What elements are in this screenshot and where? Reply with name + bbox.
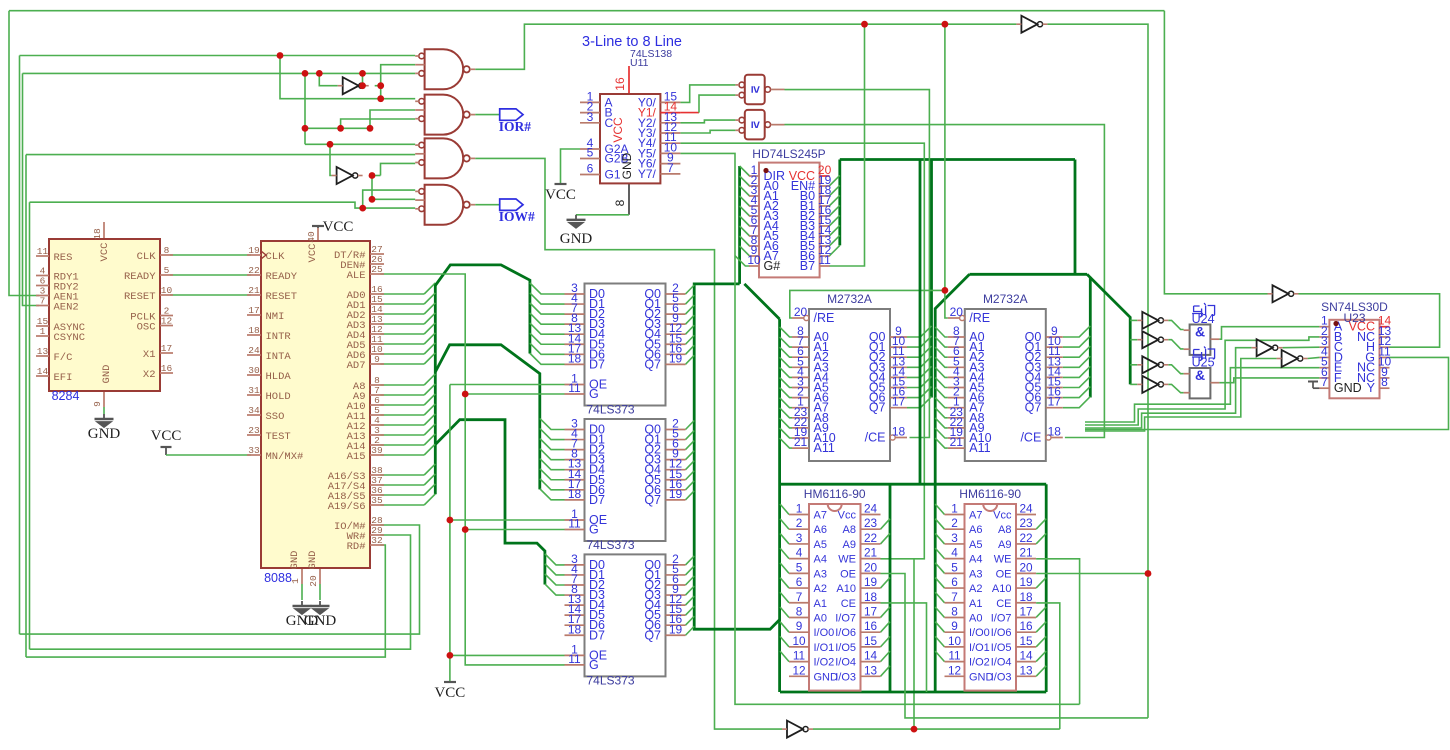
svg-text:Q7: Q7 xyxy=(644,493,661,507)
svg-text:I/O0: I/O0 xyxy=(969,627,990,639)
wire 6116-2 right fan 5 xyxy=(1036,578,1046,589)
pin 1 OE of 74LS373-3 xyxy=(565,654,585,656)
pin 10 NC of SN74LS30D xyxy=(1380,367,1390,369)
svg-text:8: 8 xyxy=(796,604,803,618)
svg-text:13: 13 xyxy=(864,663,878,677)
wire x305 down xyxy=(304,73,306,144)
wire latch Q fan y=469.7 xyxy=(686,461,695,470)
junction xyxy=(447,517,454,524)
AND gate U25 xyxy=(1190,368,1211,398)
svg-text:OE: OE xyxy=(996,568,1012,580)
wire 245 A fan y=186 xyxy=(740,176,750,186)
pin 5 A3 of HM6116-1 xyxy=(789,572,809,574)
pin 11 Q2 of M2732A-2 xyxy=(1046,356,1063,358)
svg-text:24: 24 xyxy=(864,502,878,516)
wire inv1 out to in3 line xyxy=(362,73,364,85)
wire mnmx xyxy=(166,454,251,456)
svg-text:U25: U25 xyxy=(1192,356,1215,370)
pin 3 A5 of M2732A-1 xyxy=(792,387,809,389)
wire Y5 net xyxy=(680,153,1079,704)
wire /RE net xyxy=(790,290,945,318)
pin 6 A2 of HM6116-1 xyxy=(789,587,809,589)
wire 2732-1 Q fan y=347.1 xyxy=(907,336,932,347)
IC M2732A-1 body xyxy=(809,309,890,461)
bus data top rail xyxy=(840,158,1075,161)
svg-text:RD#: RD# xyxy=(347,541,366,553)
pin 12 GND of HM6116-1 xyxy=(789,675,809,677)
pin 35 A19/S6 of 8088 xyxy=(370,504,384,506)
svg-text:GND: GND xyxy=(307,551,319,570)
wire g4-in3 net xyxy=(29,202,31,649)
svg-text:4: 4 xyxy=(796,546,803,560)
svg-text:5: 5 xyxy=(796,560,803,574)
svg-text:INTA: INTA xyxy=(266,351,292,363)
wire 6116-1 left fan 8 xyxy=(780,622,789,633)
wire latch2 D3 fan xyxy=(540,449,565,460)
wire latch1 D3 fan xyxy=(530,313,565,324)
wire AD/A pin fan y=344 xyxy=(380,343,424,345)
svg-text:10: 10 xyxy=(161,285,173,296)
wire 2732-1 A fan y=367.3 xyxy=(780,357,792,367)
wire 2732-2 A fan y=387.5 xyxy=(935,378,948,388)
wire 245 B fan y=256 xyxy=(829,245,840,256)
junction xyxy=(277,52,284,59)
pin 6 A2 of M2732A-2 xyxy=(948,356,965,358)
wire 2732-2 Q fan y=337 xyxy=(1063,326,1091,337)
wire 245 A fan y=216 xyxy=(740,206,750,216)
svg-text:GND: GND xyxy=(304,613,337,629)
wire latch2 OE xyxy=(450,519,565,521)
pin 5 E of SN74LS30D xyxy=(1319,367,1329,369)
wire OE net xyxy=(449,385,451,683)
pin 10 RESET of 8284 xyxy=(160,294,173,296)
junction xyxy=(447,652,454,659)
svg-text:GND: GND xyxy=(88,426,121,442)
wire AD/A pin fan y=334 xyxy=(380,333,424,335)
pin 13 Q3 of M2732A-2 xyxy=(1046,366,1063,368)
wire latch1 D1 fan xyxy=(530,293,565,304)
pin 14 Y1/ of 74LS138 xyxy=(660,112,680,114)
svg-text:G1: G1 xyxy=(605,168,621,182)
wire latch Q fan y=499.85 xyxy=(686,491,695,500)
pin 14 I/O4 of HM6116-2 xyxy=(1016,661,1036,663)
svg-text:VCC: VCC xyxy=(151,428,182,444)
pin 11 Y4/ of 74LS138 xyxy=(660,142,680,144)
svg-text:21: 21 xyxy=(794,435,808,449)
wire invTR out xyxy=(1047,24,1148,718)
svg-text:22: 22 xyxy=(864,531,877,545)
wire reset xyxy=(170,294,251,296)
svg-text:SSO: SSO xyxy=(266,411,285,423)
svg-text:22: 22 xyxy=(1019,531,1032,545)
8284 pin 9 GND xyxy=(103,391,105,407)
inverter xyxy=(1142,376,1158,393)
svg-text:I/O6: I/O6 xyxy=(991,627,1012,639)
junction xyxy=(369,172,376,179)
wire g1-in2 xyxy=(381,65,416,99)
pin 4 A2 of 74LS245 xyxy=(749,205,759,207)
wire latch Q fan y=615.15 xyxy=(686,606,695,615)
pin 16 Q6 of M2732A-2 xyxy=(1046,397,1063,399)
pin 16 Q6 of M2732A-1 xyxy=(890,397,907,399)
ground xyxy=(311,601,330,614)
svg-text:3: 3 xyxy=(587,110,594,124)
wire latch3 D1 fan xyxy=(545,564,565,575)
bus exit2 to latch2 xyxy=(435,345,540,490)
wire 245 A fan y=176 xyxy=(740,166,750,176)
svg-text:5: 5 xyxy=(587,146,594,160)
wire latch2 D5 fan xyxy=(540,469,565,480)
pin 9 AD7 of 8088 xyxy=(370,363,384,365)
pin 1 A7 of M2732A-2 xyxy=(948,407,965,409)
wire 2732-2 A fan y=427.9 xyxy=(935,418,948,428)
inverter xyxy=(1142,356,1158,373)
wire B net xyxy=(1085,337,1319,425)
svg-text:A11: A11 xyxy=(814,441,835,455)
pin 9 Q0 of M2732A-1 xyxy=(890,336,907,338)
wire 245 B fan y=206 xyxy=(829,195,840,206)
wire latch Q fan y=334.2 xyxy=(686,325,695,334)
svg-text:U23: U23 xyxy=(1343,311,1365,325)
svg-text:18: 18 xyxy=(568,622,582,636)
wire 245 B fan y=216 xyxy=(829,205,840,216)
wire 6116-1 left fan 6 xyxy=(780,592,789,603)
svg-text:I/O4: I/O4 xyxy=(835,657,856,669)
svg-text:19: 19 xyxy=(864,575,877,589)
svg-text:18: 18 xyxy=(568,351,582,365)
svg-text:6: 6 xyxy=(951,575,958,589)
wire latch Q fan y=314.1 xyxy=(686,305,695,314)
pin 4 RDY1 of 8284 xyxy=(36,275,49,277)
svg-text:18: 18 xyxy=(248,325,260,336)
VCC at MNMX xyxy=(161,446,172,448)
pin 19 A10 of M2732A-2 xyxy=(948,437,965,439)
svg-text:G#: G# xyxy=(764,259,781,273)
wire CE1 xyxy=(881,603,927,692)
svg-text:18: 18 xyxy=(1019,590,1033,604)
pin 18 B0 of 74LS245 xyxy=(820,195,830,197)
svg-text:A3: A3 xyxy=(814,568,827,580)
svg-text:WE: WE xyxy=(838,554,856,566)
pin 2 PCLK of 8284 xyxy=(160,315,173,317)
svg-text:READY: READY xyxy=(124,271,156,283)
svg-text:G: G xyxy=(589,658,599,672)
svg-text:33: 33 xyxy=(248,445,260,456)
svg-text:2: 2 xyxy=(796,516,803,530)
wire latch2 D4 fan xyxy=(540,459,565,470)
pin 30 HLDA of 8088 xyxy=(247,374,261,376)
bus V7 xyxy=(1074,160,1077,275)
wire 2732-1 A fan y=387.5 xyxy=(780,378,792,388)
wire latch Q fan y=354.3 xyxy=(686,345,695,354)
wire x944 RE net xyxy=(945,24,948,318)
pin 24 Vcc of HM6116-2 xyxy=(1016,514,1036,516)
pin 11 RES of 8284 xyxy=(36,255,49,257)
pin 7 GND of SN74LS30D xyxy=(1319,387,1329,389)
svg-text:CSYNC: CSYNC xyxy=(54,332,86,344)
wire g2-in3 xyxy=(341,119,416,128)
wire AD/A pin fan y=294 xyxy=(380,293,424,295)
pin 17 B1 of 74LS245 xyxy=(820,205,830,207)
pin 16 Q6 of 74LS373-1 xyxy=(666,353,686,355)
pin 13 NC of SN74LS30D xyxy=(1380,336,1390,338)
wire invMR in xyxy=(1164,11,1267,294)
wire G net xyxy=(1085,357,1449,429)
junction xyxy=(367,125,374,132)
junction xyxy=(462,391,469,398)
svg-text:GND: GND xyxy=(560,231,593,247)
pin 14 Q4 of M2732A-1 xyxy=(890,376,907,378)
svg-text:U24: U24 xyxy=(1192,312,1215,326)
pin 10 Q1 of M2732A-1 xyxy=(890,346,907,348)
bus exit1 to latch1 xyxy=(435,265,530,354)
svg-text:I/O0: I/O0 xyxy=(814,627,835,639)
svg-text:40: 40 xyxy=(306,231,317,243)
pin 3 A5 of M2732A-2 xyxy=(948,387,965,389)
pin 2 B of 74LS138 xyxy=(580,112,600,114)
inverter xyxy=(343,77,359,94)
pin 17 D6 of 74LS373-1 xyxy=(565,353,585,355)
svg-text:22: 22 xyxy=(248,265,260,276)
wire 8088 gnd20 xyxy=(319,584,321,600)
junction xyxy=(359,70,366,77)
wire latch2 D2 fan xyxy=(540,439,565,450)
svg-text:1: 1 xyxy=(40,326,46,337)
IC 74LS373-1 body xyxy=(585,284,666,406)
svg-text:CLK: CLK xyxy=(137,251,157,263)
8088 GND pins 1 20 xyxy=(301,568,303,584)
wire 2732-2 A fan y=448.1 xyxy=(935,438,948,448)
wire latch1 D7 fan xyxy=(530,353,565,364)
pin 4 D1 of 74LS373-1 xyxy=(565,303,585,305)
svg-text:13: 13 xyxy=(1019,663,1033,677)
pin 13 D4 of 74LS373-3 xyxy=(565,604,585,606)
wire ALE net xyxy=(380,274,564,665)
svg-text:I/O7: I/O7 xyxy=(991,612,1012,624)
pin 17 D6 of 74LS373-2 xyxy=(565,489,585,491)
pin 18 /CE of M2732A-2 xyxy=(1046,435,1051,440)
pin 1 A7 of HM6116-1 xyxy=(789,514,809,516)
svg-text:A10: A10 xyxy=(836,583,856,595)
svg-text:Q7: Q7 xyxy=(644,628,661,642)
svg-text:13: 13 xyxy=(37,346,49,357)
pin 19 CLK of 8088 xyxy=(247,254,261,256)
svg-text:2: 2 xyxy=(951,516,958,530)
wire 245 B fan y=226 xyxy=(829,215,840,226)
wire 245 A fan y=236 xyxy=(740,226,750,236)
svg-text:16: 16 xyxy=(864,619,878,633)
svg-text:7: 7 xyxy=(40,296,46,307)
pin 5 Q1 of 74LS373-3 xyxy=(666,574,686,576)
svg-text:AD7: AD7 xyxy=(347,360,366,372)
pin 3 AEN1 of 8284 xyxy=(36,295,49,297)
pin 10 I/O1 of HM6116-2 xyxy=(945,646,965,648)
junction xyxy=(861,21,868,28)
wire 6116-1 right fan 10 xyxy=(881,651,891,662)
bus inner 6116-1 right xyxy=(889,484,892,692)
VCC pullup at OE net xyxy=(444,681,456,683)
svg-text:9: 9 xyxy=(374,354,380,365)
pin 29 WR# of 8088 xyxy=(370,534,384,536)
svg-text:15: 15 xyxy=(864,634,878,648)
pin 18 CE of HM6116-1 xyxy=(861,602,881,604)
wire 2732-1 Q fan y=407.7 xyxy=(907,397,932,408)
junction xyxy=(377,95,384,102)
svg-text:I/O4: I/O4 xyxy=(991,657,1012,669)
pin 12 Q4 of 74LS373-3 xyxy=(666,604,686,606)
wire 6116-1 right fan 1 xyxy=(881,519,891,530)
svg-text:23: 23 xyxy=(864,516,878,530)
pin 4 A4 of M2732A-2 xyxy=(948,376,965,378)
svg-text:VCC: VCC xyxy=(434,685,465,701)
pin 1 DIR of 74LS245 xyxy=(749,175,759,177)
svg-text:D7: D7 xyxy=(589,628,605,642)
pin 10 Y5/ of 74LS138 xyxy=(660,152,680,154)
pin 17 D6 of 74LS373-3 xyxy=(565,624,585,626)
wire g4-in1 xyxy=(363,190,416,208)
NAND gate xyxy=(425,95,464,135)
svg-text:74LS373: 74LS373 xyxy=(587,538,635,552)
pin 2 Q0 of 74LS373-3 xyxy=(666,564,686,566)
svg-text:X2: X2 xyxy=(143,369,156,381)
svg-text:TEST: TEST xyxy=(266,431,291,443)
wire 2732-1 A fan y=407.7 xyxy=(780,398,792,408)
wire g3 out xyxy=(475,158,782,729)
svg-text:8088: 8088 xyxy=(264,571,292,585)
junction xyxy=(942,21,949,28)
wire 2732-2 A fan y=337 xyxy=(935,327,948,337)
wire 2732-2 A fan y=377.4 xyxy=(935,367,948,377)
pin 11 I/O2 of HM6116-1 xyxy=(789,661,809,663)
wire invcluster to U25 a xyxy=(1168,365,1183,374)
pin 9 A7 of 74LS245 xyxy=(749,255,759,257)
pin 15 Q5 of M2732A-2 xyxy=(1046,387,1063,389)
svg-text:/RE: /RE xyxy=(969,311,990,325)
svg-text:18: 18 xyxy=(864,590,878,604)
wire latch Q fan y=449.6 xyxy=(686,441,695,450)
pin 14 D5 of 74LS373-1 xyxy=(565,343,585,345)
svg-text:21: 21 xyxy=(248,285,260,296)
pin 19 A10 of HM6116-2 xyxy=(1016,587,1036,589)
pin 14 D5 of 74LS373-3 xyxy=(565,614,585,616)
svg-text:18: 18 xyxy=(92,228,103,240)
wire bus branch to inverter xyxy=(1130,364,1137,366)
pin 15 I/O5 of HM6116-2 xyxy=(1016,646,1036,648)
wire AD/A pin fan y=314 xyxy=(380,313,424,315)
svg-text:VCC: VCC xyxy=(99,243,111,262)
pin 7 D2 of 74LS373-2 xyxy=(565,449,585,451)
ground xyxy=(95,414,114,427)
pin 13 Y2/ of 74LS138 xyxy=(660,122,680,124)
wire 138 gnd to symbol xyxy=(576,214,629,216)
wire ready xyxy=(170,274,251,276)
svg-text:I/O5: I/O5 xyxy=(835,642,856,654)
wire latch2 D6 fan xyxy=(540,479,565,490)
pin 1 A7 of M2732A-1 xyxy=(792,407,809,409)
svg-text:A6: A6 xyxy=(969,524,982,536)
pin 9 I/O0 of HM6116-2 xyxy=(945,631,965,633)
svg-text:ALE: ALE xyxy=(347,270,366,282)
wire latch1 D5 fan xyxy=(530,333,565,344)
wire 8088 gnd1 xyxy=(301,584,303,600)
svg-text:RESET: RESET xyxy=(266,291,298,303)
wire Y0 xyxy=(680,85,735,103)
pin 1 CSYNC of 8284 xyxy=(36,335,49,337)
wire 2732-2 A fan y=347.1 xyxy=(935,337,948,347)
wire AD/A pin fan y=445 xyxy=(380,444,424,446)
svg-text:A1: A1 xyxy=(969,598,982,610)
wire 2732-2 A fan y=438 xyxy=(935,428,948,438)
svg-text:35: 35 xyxy=(371,495,383,506)
wire B7 net xyxy=(829,24,864,266)
pin 23 A8 of HM6116-1 xyxy=(861,528,881,530)
pin 12 Q4 of 74LS373-1 xyxy=(666,333,686,335)
svg-text:A19/S6: A19/S6 xyxy=(328,501,366,513)
pin 23 A8 of M2732A-2 xyxy=(948,417,965,419)
svg-text:34: 34 xyxy=(248,405,260,416)
wire AD/A pin fan y=385 xyxy=(380,384,424,386)
wire 2732-1 Q fan y=337 xyxy=(907,326,932,337)
wire AD/A pin fan y=495 xyxy=(380,494,424,496)
svg-text:WE: WE xyxy=(994,554,1012,566)
wire Y2 xyxy=(680,120,735,123)
wire 6116-1 right fan 9 xyxy=(881,636,891,647)
wire 6116-2 left fan 4 xyxy=(935,563,944,574)
bus 2732-2 Q collect xyxy=(1089,277,1092,398)
pin 21 A11 of M2732A-1 xyxy=(792,447,809,449)
pin 11 I/O2 of HM6116-2 xyxy=(945,661,965,663)
svg-text:74LS373: 74LS373 xyxy=(587,673,635,687)
wire latch Q fan y=479.75 xyxy=(686,471,695,480)
pin 10 G# of 74LS245 xyxy=(749,265,759,267)
svg-text:≥: ≥ xyxy=(748,121,763,128)
IC HM6116-2 body xyxy=(965,504,1017,691)
pin 17 I/O7 of HM6116-2 xyxy=(1016,616,1036,618)
pin 17 Q7 of M2732A-1 xyxy=(890,407,907,409)
pin 2 A14 of 8088 xyxy=(370,444,384,446)
svg-text:7: 7 xyxy=(796,590,803,604)
wire 2732-1 A fan y=417.8 xyxy=(780,408,792,418)
wire rd xyxy=(26,545,385,657)
inverter xyxy=(1142,312,1158,329)
pin 1 A7 of HM6116-2 xyxy=(945,514,965,516)
wire latch Q fan y=489.8 xyxy=(686,481,695,490)
svg-text:MN/MX#: MN/MX# xyxy=(266,451,304,463)
pin 15 AD1 of 8088 xyxy=(370,303,384,305)
wire 6116-2 left fan 1 xyxy=(935,519,944,530)
pin 4 G2A of 74LS138 xyxy=(580,148,600,150)
pin 38 A16/S3 of 8088 xyxy=(370,474,384,476)
wire AD/A pin fan y=475 xyxy=(380,474,424,476)
wire inv2 out xyxy=(369,175,381,177)
wire latch Q fan y=564.9 xyxy=(686,556,695,565)
svg-text:18: 18 xyxy=(568,487,582,501)
wire wr xyxy=(30,535,411,649)
junction xyxy=(377,82,384,89)
svg-text:CLK: CLK xyxy=(266,251,286,263)
pin 5 A11 of 8088 xyxy=(370,414,384,416)
pin 8 D3 of 74LS373-2 xyxy=(565,459,585,461)
junction xyxy=(337,125,344,132)
wire 2732-1 A fan y=438 xyxy=(780,428,792,438)
junction xyxy=(302,125,309,132)
wire 6116-1 right fan 7 xyxy=(881,607,891,618)
svg-text:12: 12 xyxy=(792,663,805,677)
wire 6116-1 left fan 2 xyxy=(780,533,789,544)
pin 11 B7 of 74LS245 xyxy=(820,265,830,267)
wire 2732-2 Q fan y=347.1 xyxy=(1063,336,1091,347)
svg-text:Vcc: Vcc xyxy=(993,510,1012,522)
